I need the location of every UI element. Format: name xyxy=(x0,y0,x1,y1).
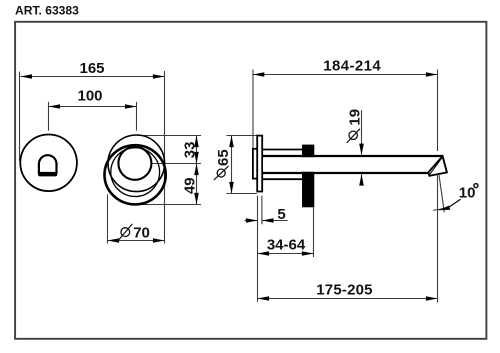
dim Ø65 line xyxy=(231,136,233,193)
spout tip polygon xyxy=(428,156,447,176)
svg-text:5: 5 xyxy=(277,206,285,223)
stub tube top line xyxy=(262,149,303,151)
spout tube small circle xyxy=(118,147,151,180)
dim 33/49 ext lines xyxy=(138,135,202,137)
dim Ø19 line upper xyxy=(361,110,363,154)
svg-text:100: 100 xyxy=(77,88,102,105)
dim Ø19 symbol xyxy=(349,131,357,139)
dim Ø65 symbol xyxy=(217,169,225,177)
dim 184-214 ext right xyxy=(437,70,439,152)
dim 5 line right tail xyxy=(262,220,288,222)
tube top line xyxy=(262,155,442,157)
spout flange circle (thin, Ø70) xyxy=(108,135,165,192)
dim 165/Ø70 ext line right xyxy=(164,71,166,244)
spout tip thick circle xyxy=(105,145,166,204)
handle dome xyxy=(39,155,57,174)
dim 184-214 ext left xyxy=(252,70,254,149)
dim 184-214 arrows xyxy=(253,72,265,77)
angle 10 deg line xyxy=(439,175,444,212)
dim 100 line xyxy=(49,106,137,108)
tube interior white xyxy=(263,157,434,172)
black mounting column xyxy=(302,145,314,208)
dim 184-214 line xyxy=(253,74,438,76)
svg-text:33: 33 xyxy=(181,142,198,159)
dim 33/49 line xyxy=(196,136,198,205)
dim 34-64 ext right xyxy=(313,208,315,258)
svg-text:165: 165 xyxy=(79,60,104,77)
stub tube bottom line xyxy=(262,178,303,180)
svg-text:19: 19 xyxy=(347,109,364,126)
svg-text:184-214: 184-214 xyxy=(323,57,381,74)
svg-text:175-205: 175-205 xyxy=(316,281,372,298)
svg-text:ART. 63383: ART. 63383 xyxy=(15,4,79,18)
flange plate rect (side view, Ø65) xyxy=(257,136,262,192)
dim 5 line left tail xyxy=(245,220,258,222)
dim Ø70 line xyxy=(108,240,165,242)
dim 175-205 arrows xyxy=(258,296,270,301)
dim Ø65 arrows xyxy=(229,136,234,148)
dim 165 line xyxy=(20,76,164,78)
handle circle (front view) xyxy=(20,135,77,192)
handle base bar xyxy=(38,172,57,177)
dim 33 arrows xyxy=(194,136,199,148)
spout inner thin circle xyxy=(111,148,160,197)
angle 10 deg arc xyxy=(433,208,445,210)
dim 34-64 line xyxy=(258,253,314,255)
dim 49 arrows xyxy=(194,164,199,176)
dim 165 ext line left xyxy=(19,72,21,162)
dim 100 arrows xyxy=(49,104,61,109)
spout tip inner diagonal xyxy=(430,158,442,174)
dim 5 ext lines xyxy=(257,196,259,302)
dim 100 ext lines xyxy=(48,102,50,131)
tube bottom line xyxy=(262,172,428,174)
dim 34-64 arrows xyxy=(258,251,270,256)
svg-text:70: 70 xyxy=(133,224,150,241)
dim Ø70 ext line left xyxy=(107,195,109,244)
svg-text:10: 10 xyxy=(459,184,476,201)
svg-text:34-64: 34-64 xyxy=(267,236,306,253)
angle 10 deg leader arrow xyxy=(438,206,450,211)
dim Ø19 line lower xyxy=(361,175,363,186)
dim 165 arrows xyxy=(20,74,32,79)
dim 175-205 line xyxy=(258,298,438,300)
svg-text:65: 65 xyxy=(215,149,232,166)
dim Ø70 symbol xyxy=(121,228,130,237)
dim 175-205 ext right xyxy=(437,175,439,302)
wall body rect (side view) xyxy=(253,149,258,179)
svg-text:49: 49 xyxy=(181,177,198,194)
degree symbol xyxy=(474,184,478,188)
dim Ø70 arrows xyxy=(108,238,120,243)
dim Ø65 ext lines xyxy=(226,135,256,137)
